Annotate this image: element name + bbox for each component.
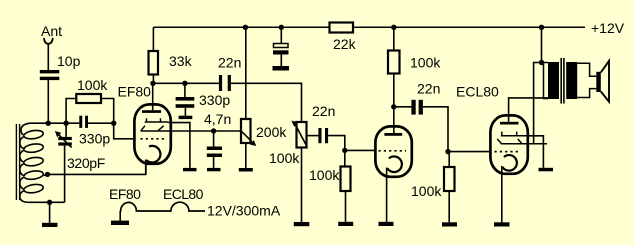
wire 22n3 to grid node 3 xyxy=(423,107,448,152)
ground coil xyxy=(42,223,58,227)
wire V3 cathode to ground xyxy=(501,166,503,222)
capacitor C 4,7n xyxy=(213,131,215,147)
arrow 100k wiper xyxy=(296,125,307,146)
V2 anode xyxy=(384,133,402,136)
wire 100k3 to ground xyxy=(448,191,450,222)
capacitor C 22n coupling 2 xyxy=(318,128,328,143)
wire 200k bottom lead xyxy=(245,143,247,168)
capacitor C 330p anode plates xyxy=(176,97,195,108)
potentiometer R 200k xyxy=(241,119,251,143)
wire to 22n3 xyxy=(394,106,412,108)
wire 100k left lead xyxy=(66,99,76,124)
node anode 33k xyxy=(150,81,155,86)
transformer T1 secondary xyxy=(566,62,577,99)
wire grid to tube 2 xyxy=(345,149,376,151)
wire elco to ground xyxy=(280,55,282,67)
capacitor C 330p series xyxy=(79,116,88,128)
EF80 anode xyxy=(142,110,161,113)
transformer core xyxy=(560,58,562,104)
resistor R 100k grid xyxy=(76,94,101,103)
V3 grid g2 xyxy=(497,139,547,144)
ground 100k grid 3 xyxy=(442,222,457,226)
V2 grid g1 dotted xyxy=(379,150,407,152)
wire EF80 g2 to pot wiper xyxy=(171,130,241,132)
EF80 grid g3 xyxy=(145,118,169,122)
svg-text:22k: 22k xyxy=(333,36,357,52)
V3 cathode xyxy=(502,155,516,171)
node C xyxy=(111,121,116,126)
capacitor C 10p xyxy=(40,70,60,80)
wire node C to EF80 g1 xyxy=(114,123,135,139)
wire 100k pot wiper out xyxy=(307,135,319,137)
svg-text:22n: 22n xyxy=(312,103,335,119)
wire +12V bus xyxy=(153,26,585,28)
arrow 200k wiper xyxy=(241,131,252,142)
node B xyxy=(63,121,68,126)
wire 100k pot to ground xyxy=(301,148,303,223)
svg-text:ECL80: ECL80 xyxy=(163,186,204,202)
svg-text:100k: 100k xyxy=(411,183,442,199)
V2 cathode xyxy=(387,156,401,172)
svg-text:22n: 22n xyxy=(218,54,241,70)
wire EF80 cathode lead xyxy=(145,160,147,175)
wire V3 g2 to +12V xyxy=(534,63,542,144)
speaker LS xyxy=(596,72,601,92)
tube ECL80 triode V2 envelope xyxy=(375,126,411,176)
ground V3 cathode xyxy=(494,222,510,226)
wire anode row xyxy=(153,82,219,84)
wire EF80 anode lead xyxy=(152,83,154,110)
wire 10p to node A xyxy=(47,80,49,123)
capacitor C 22n coupling 3 xyxy=(411,100,423,115)
V3 anode xyxy=(500,122,519,125)
svg-text:100k: 100k xyxy=(309,167,340,183)
wire 100k right lead xyxy=(101,99,114,124)
wire tap stub xyxy=(43,174,47,175)
V3 grid g3 xyxy=(501,132,528,136)
resistor R 100k grid 3 xyxy=(448,152,450,167)
ground 330p xyxy=(179,116,193,119)
wire 200k top lead xyxy=(245,27,247,119)
svg-text:ECL80: ECL80 xyxy=(456,83,499,99)
EF80 grid g1 dotted xyxy=(141,138,167,140)
EF80 grid g2 xyxy=(141,126,171,131)
wire V2 anode lead xyxy=(393,107,395,133)
wire EF80 g3 to ground xyxy=(169,123,190,168)
svg-text:EF80: EF80 xyxy=(109,186,141,202)
svg-text:320pF: 320pF xyxy=(67,155,105,171)
node 22n3 tap xyxy=(391,104,396,109)
svg-text:EF80: EF80 xyxy=(118,83,152,99)
EF80 cathode xyxy=(146,146,160,163)
svg-text:Ant: Ant xyxy=(41,23,62,39)
heater EF80 bump xyxy=(120,202,205,211)
svg-text:10p: 10p xyxy=(57,53,81,69)
node bus 200k xyxy=(243,25,248,30)
svg-text:100k: 100k xyxy=(77,77,108,93)
node coil bottom xyxy=(47,200,52,205)
ground V3 g3 xyxy=(539,168,554,172)
wire 330p to ground xyxy=(184,108,186,116)
svg-text:33k: 33k xyxy=(169,53,193,69)
node bus 100k xyxy=(391,25,396,30)
wire top tank node xyxy=(30,122,79,124)
wire 330p to node C xyxy=(88,122,114,124)
wire tap to EF80 cathode xyxy=(48,160,146,174)
svg-text:22n: 22n xyxy=(417,81,440,97)
resistor R 33k xyxy=(149,51,159,75)
capacitor C elco lead xyxy=(280,27,282,43)
wire grid to tube 3 xyxy=(448,151,491,153)
capacitor C 22n coupling 1 xyxy=(219,75,231,91)
svg-text:330p: 330p xyxy=(79,131,110,147)
inductor L1 coil xyxy=(20,123,43,202)
wire antenna down xyxy=(47,44,49,70)
tube ECL80 pentode V3 envelope xyxy=(490,115,527,173)
node transformer top xyxy=(539,60,544,65)
node pentode grid xyxy=(445,149,450,154)
tube EF80 V1 envelope xyxy=(134,104,170,163)
ground 200k xyxy=(239,168,253,172)
resistor R 100k grid 2 xyxy=(344,150,346,166)
arrow 320pF xyxy=(59,135,72,148)
wire bus to transformer xyxy=(541,27,543,62)
wire 22n to 100k pot xyxy=(231,83,302,122)
svg-text:12V/300mA: 12V/300mA xyxy=(207,202,281,218)
svg-text:200k: 200k xyxy=(256,124,287,140)
node bus transformer xyxy=(539,25,544,30)
ground 4,7n xyxy=(207,168,221,171)
wire V3 anode lead xyxy=(509,98,548,122)
wire var cap top lead xyxy=(65,123,67,137)
heater note ground xyxy=(111,221,129,225)
ground 100k pot xyxy=(294,222,310,226)
wire var cap bottom lead xyxy=(64,146,66,203)
ground EF80 g3 xyxy=(183,168,197,171)
svg-text:+12V: +12V xyxy=(591,20,625,36)
ground 100k grid 2 xyxy=(338,222,353,226)
svg-text:4,7n: 4,7n xyxy=(204,111,231,127)
wire 100k to ground xyxy=(345,191,347,222)
wire heater lead xyxy=(119,211,121,221)
svg-text:100k: 100k xyxy=(410,55,441,71)
coil tap node xyxy=(45,172,50,177)
wire 22n2 to grid node xyxy=(328,136,345,151)
node 4,7n xyxy=(211,128,216,133)
wire V3 g3 to ground xyxy=(528,136,543,168)
wire coil bottom xyxy=(28,201,65,203)
capacitor C elco plates xyxy=(274,44,289,48)
ground elco xyxy=(273,66,290,71)
resistor R 22k xyxy=(330,23,354,33)
V3 grid g1 dotted xyxy=(495,151,522,153)
inductor core lines xyxy=(15,124,17,200)
svg-text:330p: 330p xyxy=(199,92,230,108)
wire to ground xyxy=(49,202,51,223)
node A xyxy=(46,121,51,126)
node bus elco xyxy=(279,25,284,30)
wire V2 cathode to ground xyxy=(386,168,388,222)
node triode grid xyxy=(342,148,347,153)
antenna Ant xyxy=(44,38,53,44)
capacitor C 330p anode lead xyxy=(182,81,187,86)
wire load leads xyxy=(393,27,395,50)
wire 33k leads xyxy=(152,75,154,84)
transformer T1 primary xyxy=(542,63,549,99)
ground V2 cathode xyxy=(379,222,394,226)
svg-text:100k: 100k xyxy=(269,150,300,166)
potentiometer R 100k xyxy=(297,122,307,148)
capacitor C 320pF variable xyxy=(58,137,72,146)
resistor R 100k anode load xyxy=(388,51,400,74)
